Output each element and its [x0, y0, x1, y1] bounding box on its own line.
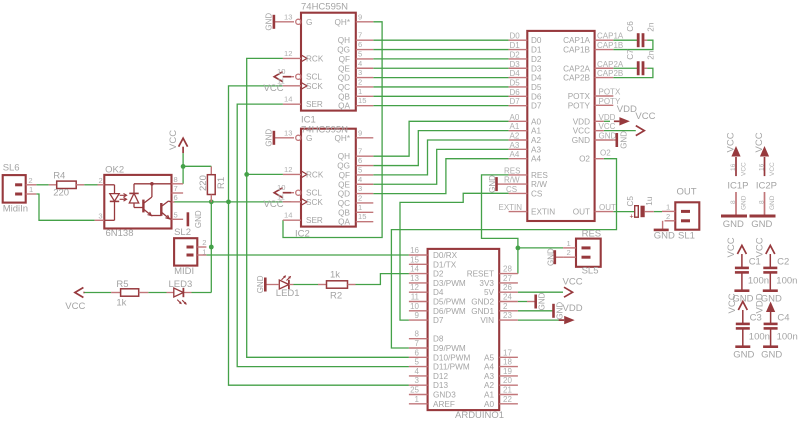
svg-text:EXTIN: EXTIN	[531, 208, 555, 217]
svg-text:IC1P: IC1P	[727, 181, 748, 192]
IC2 output pin 6	[356, 165, 374, 167]
SID pin D1	[509, 49, 528, 51]
SID pin POTX	[595, 95, 614, 97]
svg-text:GND: GND	[751, 219, 772, 230]
svg-text:VDD: VDD	[573, 117, 590, 126]
svg-text:SER: SER	[306, 216, 323, 225]
svg-text:6N138: 6N138	[106, 228, 134, 239]
svg-text:8: 8	[415, 330, 420, 339]
svg-text:QF: QF	[339, 171, 350, 180]
IC1 output pin 5	[356, 58, 374, 60]
svg-text:POTY: POTY	[568, 101, 591, 110]
svg-text:RES: RES	[531, 171, 548, 180]
IC1 output pin 2	[356, 86, 374, 88]
svg-text:QF: QF	[339, 55, 350, 64]
svg-text:OUT: OUT	[573, 208, 590, 217]
svg-text:SCK: SCK	[306, 198, 323, 207]
svg-text:OK2: OK2	[105, 164, 124, 175]
wire SID VDD arrow	[604, 120, 610, 122]
svg-text:VDD: VDD	[563, 303, 583, 314]
svg-text:D3: D3	[510, 60, 521, 69]
svg-text:QE: QE	[338, 64, 350, 73]
svg-text:D11/PWM: D11/PWM	[433, 363, 470, 372]
svg-text:8: 8	[174, 175, 178, 184]
IC1 pin 10 SCL with bubble and VCC arrow	[291, 76, 294, 78]
connector SL5 RES	[576, 239, 601, 267]
svg-text:1: 1	[29, 185, 33, 194]
svg-text:18: 18	[503, 358, 512, 367]
OK2 input LED	[104, 184, 114, 186]
SID pin A3	[509, 148, 528, 150]
svg-text:D13: D13	[433, 381, 448, 390]
junction R1 bottom	[209, 199, 214, 204]
svg-text:A0: A0	[484, 400, 494, 409]
svg-text:D3/PWM: D3/PWM	[433, 279, 466, 288]
svg-text:D4: D4	[531, 74, 542, 83]
ARDUINO1 pin 16 D0/RX	[409, 254, 428, 256]
svg-text:7: 7	[174, 184, 178, 193]
svg-text:3: 3	[358, 184, 362, 193]
svg-text:2: 2	[99, 176, 103, 185]
wire Arduino VIN to VDD arrow	[518, 319, 563, 321]
svg-text:1: 1	[202, 247, 206, 256]
ARDUINO1 pin 7 D9/PWM	[409, 347, 428, 349]
power symbol IC2P GND pin 8	[764, 192, 766, 215]
ARDUINO1 pin 4 D12	[409, 375, 428, 377]
ARDUINO1 pin 12 D4	[409, 291, 428, 293]
svg-text:GND: GND	[761, 350, 782, 361]
IC1 pin 14 SER	[283, 103, 301, 105]
svg-text:14: 14	[284, 95, 292, 104]
svg-text:1: 1	[358, 87, 362, 96]
svg-text:GND: GND	[572, 136, 590, 145]
svg-text:7: 7	[358, 31, 362, 40]
op-amp-style shift register IC1 74HC595N	[301, 13, 356, 111]
wire R5-LED3 chain to VCC arrow	[85, 292, 112, 294]
svg-text:LED3: LED3	[169, 279, 193, 290]
wire O2 net SID.O2 to Arduino D9/PWM	[391, 159, 616, 348]
svg-text:D9/PWM: D9/PWM	[433, 344, 466, 353]
svg-text:7: 7	[358, 147, 362, 156]
svg-text:A5: A5	[484, 353, 494, 362]
svg-text:EXTIN: EXTIN	[499, 203, 523, 212]
svg-text:100n: 100n	[777, 332, 798, 343]
SID pin GND	[595, 139, 614, 141]
svg-text:VCC: VCC	[65, 301, 85, 312]
OK2 internal top rail	[134, 183, 172, 185]
svg-text:A2: A2	[510, 132, 520, 141]
capacitor C6 2n	[637, 33, 640, 47]
svg-text:C2: C2	[777, 257, 789, 268]
wire VCC arrow to R1 top and OK2.8	[182, 153, 184, 184]
svg-text:27: 27	[503, 274, 512, 283]
svg-text:CAP1A: CAP1A	[597, 32, 624, 41]
svg-text:QH: QH	[338, 36, 350, 45]
svg-text:D7: D7	[531, 102, 542, 111]
svg-text:100n: 100n	[776, 276, 797, 287]
svg-text:R2: R2	[330, 291, 342, 302]
svg-text:4: 4	[358, 175, 362, 184]
svg-text:14: 14	[284, 211, 292, 220]
capacitor C5 1u polarized	[635, 206, 639, 218]
power symbol IC1P VCC pin 16	[731, 146, 740, 157]
svg-text:3: 3	[98, 212, 102, 221]
wire RCK net IC1.12-IC2.12 to D10	[247, 58, 409, 357]
IC2 output pin 1	[356, 211, 374, 213]
IC1 GND symbol at G pin	[273, 15, 276, 29]
junction RES net	[516, 246, 521, 251]
VCC arrow at SID VCC pin	[636, 126, 645, 136]
VCC arrow at Arduino 5V	[564, 287, 573, 297]
svg-text:CAP2A: CAP2A	[563, 64, 590, 73]
svg-text:GND: GND	[546, 248, 555, 266]
svg-text:GND: GND	[256, 275, 265, 293]
svg-text:GND: GND	[599, 132, 617, 141]
svg-text:C4: C4	[777, 313, 789, 324]
SID pin D6	[509, 95, 528, 97]
svg-text:D4: D4	[510, 69, 521, 78]
svg-text:3: 3	[358, 68, 362, 77]
svg-text:GND: GND	[741, 195, 748, 210]
svg-text:1: 1	[666, 202, 670, 211]
ARDUINO1 pin 10 D6/PWM	[409, 310, 428, 312]
svg-text:D1: D1	[531, 46, 542, 55]
svg-text:VCC: VCC	[563, 276, 583, 287]
svg-text:D2: D2	[531, 55, 542, 64]
svg-text:QG: QG	[337, 46, 350, 55]
svg-text:16: 16	[730, 163, 737, 171]
svg-text:GND: GND	[264, 13, 273, 31]
svg-text:RCK: RCK	[306, 54, 324, 63]
svg-text:VCC: VCC	[168, 130, 179, 150]
svg-text:GND: GND	[619, 131, 628, 149]
svg-text:D6: D6	[531, 92, 542, 101]
ARDUINO1 pin 13 D3/PWM	[409, 282, 428, 284]
svg-text:16: 16	[759, 163, 766, 171]
svg-text:A4: A4	[531, 155, 541, 164]
capacitor C2 100n with VCC arrow	[766, 246, 775, 255]
svg-text:CAP2B: CAP2B	[563, 74, 590, 83]
svg-text:D12: D12	[433, 372, 448, 381]
ground at LED1	[265, 284, 279, 286]
svg-text:D6: D6	[510, 88, 521, 97]
IC1 output pin 15	[356, 105, 374, 107]
SID pin VCC	[595, 130, 604, 132]
wire C7 loop CAP2A/CAP2B	[613, 67, 637, 69]
OK2 photodiode	[133, 184, 135, 194]
svg-text:2n: 2n	[647, 22, 656, 32]
svg-text:A3: A3	[531, 145, 541, 154]
wire SID 5V VCC arrow	[518, 291, 563, 293]
SID pin A2	[509, 139, 528, 141]
wire SL2.1 to Arduino D0/RX	[206, 254, 409, 256]
SID pin RES	[509, 174, 528, 176]
junction RCK net	[244, 172, 249, 177]
ARDUINO1 pin 25 GND3	[409, 394, 428, 396]
wire SCK net OK2.6 - IC2.11 - IC1.11 - D13	[174, 201, 291, 203]
junction VCC node above OK2	[181, 164, 186, 169]
svg-text:OUT: OUT	[599, 203, 616, 212]
svg-text:D3: D3	[531, 64, 542, 73]
wire CS net SID.CS to Arduino D7	[400, 193, 509, 320]
svg-text:GND: GND	[488, 175, 497, 193]
svg-text:3V3: 3V3	[479, 279, 494, 288]
GND symbol at Arduino GND2	[527, 301, 536, 303]
svg-text:A1: A1	[510, 122, 520, 131]
svg-text:GND: GND	[733, 350, 754, 361]
optocoupler OK2 6N138	[104, 175, 171, 229]
IC1 output pin 6	[356, 49, 374, 51]
svg-text:RES: RES	[582, 228, 602, 239]
SID pin D2	[509, 58, 528, 60]
svg-text:LED1: LED1	[276, 288, 300, 299]
svg-text:74HC595N: 74HC595N	[301, 2, 348, 13]
svg-text:2: 2	[503, 302, 508, 311]
ARDUINO1 pin 26 5V	[499, 291, 518, 293]
svg-text:D5/PWM: D5/PWM	[433, 298, 466, 307]
svg-text:6: 6	[358, 40, 362, 49]
IC2 pin 14 SER	[283, 219, 301, 221]
svg-text:1: 1	[567, 239, 571, 248]
ARDUINO1 pin 9 D7	[409, 319, 428, 321]
LED LED3	[174, 288, 184, 297]
svg-text:220: 220	[53, 187, 69, 198]
connector SL1 OUT	[675, 202, 699, 229]
svg-text:4: 4	[415, 367, 420, 376]
svg-text:220: 220	[198, 175, 209, 191]
IC1 pin 13 G with bubble	[274, 21, 294, 23]
wire Arduino GND1	[518, 310, 553, 312]
svg-text:11: 11	[411, 293, 420, 302]
resistor R1 220 vertical	[183, 165, 211, 167]
svg-text:D0: D0	[510, 32, 521, 41]
svg-text:19: 19	[503, 367, 512, 376]
IC2 pin 10 SCL with bubble and VCC arrow	[291, 192, 294, 194]
svg-text:POTX: POTX	[599, 88, 621, 97]
svg-text:28: 28	[503, 265, 512, 274]
svg-text:CS: CS	[506, 185, 517, 194]
svg-text:CAP1A: CAP1A	[563, 36, 590, 45]
svg-text:100n: 100n	[749, 332, 770, 343]
svg-text:D7: D7	[510, 97, 521, 106]
OK2 coupling arrows	[120, 194, 126, 196]
svg-text:24: 24	[503, 293, 512, 302]
ARDUINO1 pin 3 D13	[409, 384, 428, 386]
op-amp-style shift register IC2 74HC595N	[301, 129, 356, 227]
ARDUINO1 pin 20 A2	[499, 384, 518, 386]
svg-text:GND: GND	[723, 219, 744, 230]
IC2 output pin 4	[356, 183, 374, 185]
svg-text:GND: GND	[769, 195, 776, 210]
ARDUINO1 pin 6 D10/PWM	[409, 356, 428, 358]
capacitor C3 100n with VCC arrow	[738, 302, 747, 311]
svg-text:+: +	[630, 214, 634, 221]
svg-text:13: 13	[410, 274, 419, 283]
svg-text:1k: 1k	[330, 270, 340, 281]
svg-text:QD: QD	[338, 74, 350, 83]
svg-text:VDD: VDD	[755, 293, 766, 313]
GND symbol at Arduino GND1	[552, 310, 555, 312]
svg-text:10: 10	[277, 67, 285, 76]
IC2 pin 12 RCK clock input	[283, 173, 301, 175]
SID pin D0	[509, 39, 528, 41]
resistor R4 220	[49, 184, 57, 186]
svg-text:QA: QA	[338, 102, 350, 111]
IC2 output pin 7	[356, 155, 374, 157]
IC2 output pin 3	[356, 193, 374, 195]
svg-text:D2: D2	[510, 50, 521, 59]
svg-text:D5: D5	[531, 83, 542, 92]
svg-text:CAP1B: CAP1B	[597, 41, 623, 50]
connector SL2 MIDI	[174, 238, 197, 265]
svg-text:5: 5	[358, 49, 362, 58]
SID pin VDD	[595, 120, 604, 122]
svg-text:A1: A1	[484, 391, 494, 400]
svg-text:POTX: POTX	[568, 92, 591, 101]
wire SID VCC arrow	[604, 130, 636, 132]
ARDUINO1 pin 11 D5/PWM	[409, 301, 428, 303]
svg-text:11: 11	[277, 192, 285, 201]
svg-text:R4: R4	[53, 171, 65, 182]
svg-text:1: 1	[415, 395, 420, 404]
svg-text:D1: D1	[510, 41, 521, 50]
svg-text:R/W: R/W	[531, 180, 547, 189]
junction SL2 pin2	[209, 245, 214, 250]
svg-text:D7: D7	[433, 316, 444, 325]
ARDUINO1 pin 5 D11/PWM	[409, 366, 428, 368]
svg-text:A2: A2	[531, 136, 541, 145]
svg-text:17: 17	[503, 348, 512, 357]
svg-text:20: 20	[503, 376, 512, 385]
svg-text:VCC: VCC	[727, 293, 738, 313]
wire R1 pullup node to SL2.2 and LED3	[210, 202, 212, 293]
wire LED1-R2 to Arduino D2	[294, 284, 319, 286]
power symbol IC1P GND pin 8	[735, 192, 737, 215]
ARDUINO1 pin 2 GND1	[499, 310, 518, 312]
svg-text:IC2: IC2	[295, 229, 310, 240]
VCC arrow left of R5	[75, 288, 84, 298]
svg-text:QC: QC	[338, 199, 350, 208]
svg-text:GND: GND	[538, 292, 547, 310]
svg-text:15: 15	[358, 212, 366, 221]
ARDUINO1 pin 24 GND2	[499, 301, 518, 303]
wire D0-D7 bus IC1 to SID	[373, 39, 508, 41]
SID pin CS	[509, 192, 528, 194]
wire SER1 net IC1.14 to D11	[237, 104, 409, 366]
svg-text:CAP1B: CAP1B	[563, 46, 590, 55]
svg-text:12: 12	[284, 165, 292, 174]
svg-text:VCC: VCC	[599, 122, 616, 131]
ARDUINO1 pin 22 A0	[499, 403, 518, 405]
svg-text:2: 2	[358, 77, 362, 86]
svg-text:3: 3	[415, 376, 420, 385]
svg-text:7: 7	[415, 339, 420, 348]
svg-text:GND1: GND1	[471, 307, 494, 316]
svg-text:9: 9	[358, 12, 362, 21]
svg-text:D2: D2	[433, 270, 444, 279]
SID pin EXTIN unconnected	[509, 211, 528, 213]
svg-text:QG: QG	[337, 162, 350, 171]
svg-text:ARDUINO1: ARDUINO1	[455, 410, 504, 421]
svg-text:A0: A0	[510, 113, 520, 122]
OK2 transistor Q1	[142, 200, 144, 213]
svg-text:11: 11	[277, 76, 285, 85]
OK2 pin5 GND symbol	[187, 212, 190, 226]
ARDUINO1 pin 19 A3	[499, 375, 518, 377]
svg-text:8: 8	[730, 200, 737, 204]
svg-text:O2: O2	[579, 155, 590, 164]
svg-text:D1/TX: D1/TX	[433, 260, 457, 269]
svg-text:QH*: QH*	[335, 18, 351, 27]
junction SCK vertical on pin6 line	[226, 199, 231, 204]
svg-text:AREF: AREF	[433, 400, 455, 409]
ARDUINO1 pin 14 D2	[409, 273, 428, 275]
svg-text:10: 10	[277, 183, 285, 192]
svg-text:2: 2	[567, 248, 571, 257]
svg-text:QE: QE	[338, 180, 350, 189]
svg-text:6: 6	[174, 193, 178, 202]
SID pin CAP1A	[595, 39, 614, 41]
svg-text:RCK: RCK	[306, 170, 324, 179]
ARDUINO1 pin 23 VIN	[499, 319, 518, 321]
IC1 output pin 7	[356, 39, 374, 41]
svg-text:A4: A4	[510, 150, 520, 159]
svg-text:2n: 2n	[647, 50, 656, 60]
wire SL6.1 to OK2.3	[36, 194, 94, 220]
IC SID 6581 box	[527, 31, 594, 221]
svg-text:1k: 1k	[116, 298, 126, 309]
svg-text:RESET: RESET	[467, 270, 494, 279]
svg-text:R/W: R/W	[504, 176, 520, 185]
SID pin CAP1B	[595, 49, 614, 51]
svg-text:9: 9	[415, 311, 420, 320]
svg-text:SL1: SL1	[678, 231, 695, 242]
svg-text:A0: A0	[531, 117, 541, 126]
svg-text:G: G	[306, 18, 312, 27]
svg-text:VCC: VCC	[635, 111, 655, 122]
svg-text:6: 6	[358, 156, 362, 165]
svg-text:12: 12	[410, 283, 419, 292]
SID pin A4	[509, 158, 528, 160]
svg-text:1u: 1u	[645, 196, 654, 206]
svg-text:D4: D4	[433, 288, 444, 297]
wire C6 loop CAP1A/CAP1B	[613, 39, 637, 41]
svg-text:MIDI: MIDI	[174, 266, 194, 277]
ARDUINO1 pin 28 RESET	[499, 273, 518, 275]
IC2 output pin 5	[356, 174, 374, 176]
svg-text:SL5: SL5	[582, 266, 599, 277]
svg-text:SCK: SCK	[306, 82, 323, 91]
svg-text:26: 26	[503, 283, 512, 292]
svg-text:C7: C7	[626, 49, 635, 60]
svg-text:RES: RES	[504, 166, 520, 175]
IC1 pin 12 RCK clock input	[283, 57, 301, 59]
ARDUINO1 pin 21 A1	[499, 394, 518, 396]
wire SID OUT to C5 to SL1.1	[613, 211, 634, 213]
svg-text:5: 5	[358, 165, 362, 174]
svg-text:10: 10	[410, 302, 419, 311]
svg-text:13: 13	[284, 128, 292, 137]
IC1 pin 11 SCK clock input	[283, 85, 301, 87]
svg-text:4: 4	[358, 59, 362, 68]
svg-text:VIN: VIN	[480, 316, 494, 325]
svg-text:A3: A3	[510, 141, 520, 150]
svg-text:15: 15	[410, 255, 419, 264]
svg-text:6: 6	[415, 348, 420, 357]
VDD filled arrow at Arduino VIN	[564, 316, 575, 324]
capacitor C1 100n with VCC arrow	[737, 246, 746, 255]
power symbol IC2P VCC pin 16	[760, 146, 769, 157]
